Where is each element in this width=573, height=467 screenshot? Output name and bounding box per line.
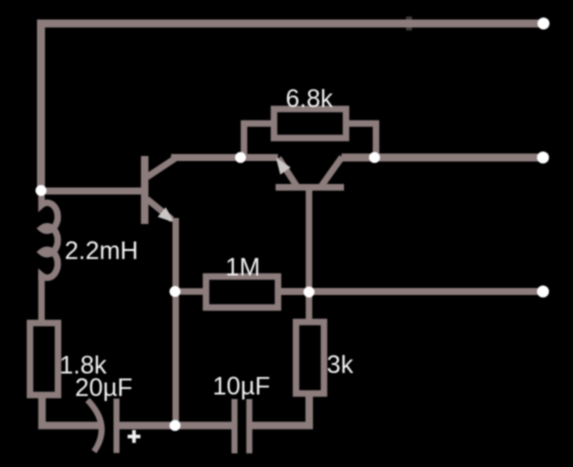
wire Q1 emitter drop — [172, 218, 179, 426]
wire Q2 base — [306, 190, 313, 292]
wire bottom rail middle — [119, 422, 232, 430]
wire left rail — [37, 20, 45, 191]
terminal post top right — [538, 18, 550, 30]
wire joint stub on top rail — [406, 17, 412, 31]
node B junction — [235, 152, 246, 163]
node C junction — [369, 152, 380, 163]
terminal post right mid — [537, 152, 549, 164]
label + polarity — [128, 430, 141, 443]
transistor Q1 — [145, 156, 176, 224]
resistor R1 6.8k — [244, 109, 376, 158]
wire 1M row to right terminal — [278, 288, 543, 295]
svg-text:1M: 1M — [225, 254, 260, 282]
node D junction — [304, 287, 315, 298]
capacitor C2 10uF — [235, 399, 250, 453]
inductor L1 2.2mH — [42, 191, 58, 281]
node E junction — [170, 286, 181, 297]
svg-text:20µF: 20µF — [75, 374, 132, 402]
transistor Q2 — [276, 157, 344, 187]
wire collector row left — [171, 154, 278, 161]
svg-text:10µF: 10µF — [213, 373, 270, 401]
node A junction — [36, 185, 47, 196]
node F junction — [170, 420, 181, 431]
svg-text:2.2mH: 2.2mH — [65, 237, 139, 265]
wire top rail — [37, 20, 543, 28]
wire bottom rail left + 1.8k bottom lead — [42, 393, 99, 426]
resistor R3 3k — [296, 292, 324, 394]
resistor R2 1M — [175, 277, 278, 308]
wire Q1 base — [41, 188, 142, 195]
wire collector row right — [342, 154, 544, 162]
svg-text:6.8k: 6.8k — [286, 85, 334, 113]
resistor R4 1.8k — [30, 275, 58, 395]
svg-text:3k: 3k — [327, 351, 354, 379]
terminal post right bottom — [537, 286, 549, 298]
wire bottom-right corner (3k to C2) — [252, 394, 309, 426]
capacitor C1 20uF polarized — [88, 399, 117, 453]
